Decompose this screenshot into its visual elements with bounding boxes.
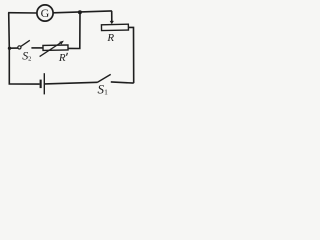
node junction dot top xyxy=(78,10,82,14)
resistor R' (rheostat box with arrow) xyxy=(40,41,68,64)
wire rheostat R' to node xyxy=(68,12,80,48)
wire switch S2 to rheostat R' xyxy=(31,47,42,49)
wire right of switch S1 to corner xyxy=(111,82,134,83)
wire top left to galvanometer xyxy=(8,12,37,14)
svg-text:G: G xyxy=(41,6,50,20)
node junction dot on left border xyxy=(8,47,11,50)
switch S1 xyxy=(97,74,110,96)
wire right border xyxy=(128,27,133,83)
svg-text:R: R xyxy=(58,52,66,64)
svg-text:R: R xyxy=(106,32,114,44)
battery cell xyxy=(40,73,45,94)
galvanometer G xyxy=(37,5,53,21)
wire battery to switch S1 xyxy=(45,82,98,84)
wire S2 branch from left border xyxy=(9,47,17,49)
wire bottom left with battery xyxy=(9,83,40,85)
resistor R (rheostat box) xyxy=(101,21,128,44)
wire left border xyxy=(8,13,11,84)
svg-text:1: 1 xyxy=(104,87,108,96)
svg-text:2: 2 xyxy=(28,55,31,62)
switch S2 xyxy=(18,40,32,62)
wire top right of galvanometer to corner xyxy=(53,11,112,13)
wire slider drop to rheostat R xyxy=(111,11,113,21)
